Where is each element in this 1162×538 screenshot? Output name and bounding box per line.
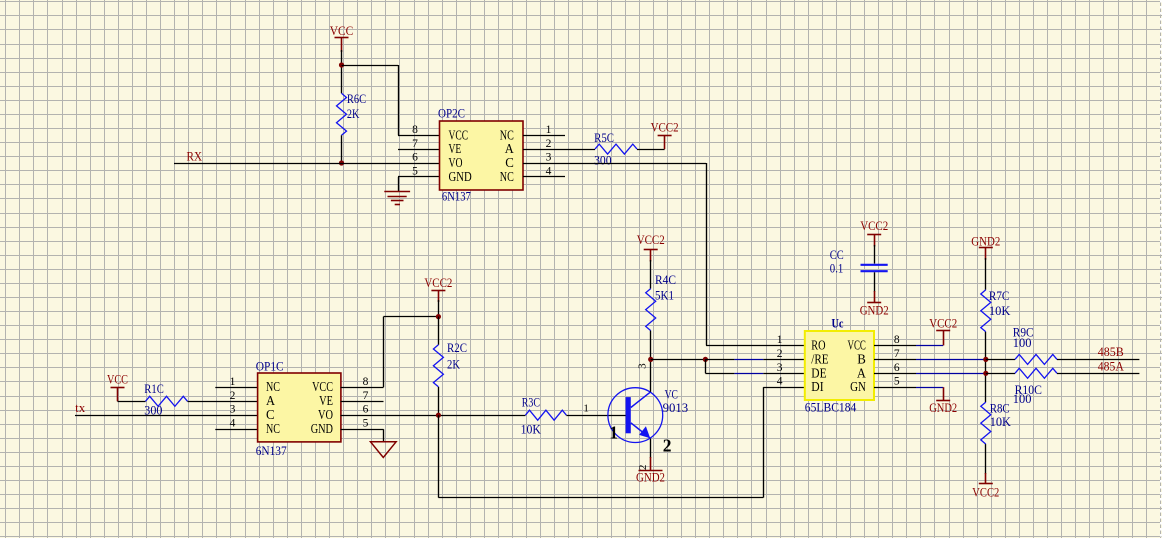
resistor R9C [1015,354,1057,364]
svg-text:485A: 485A [1098,360,1124,374]
U1 pin 2 line [763,359,805,361]
svg-text:5K1: 5K1 [655,289,674,303]
wire R7C bottom through junctions to R8C [985,332,987,402]
U1 pin names [811,337,866,394]
svg-text:1: 1 [546,124,552,136]
OP1C pin 7 stub [341,401,384,403]
svg-text:2: 2 [637,465,649,471]
wire tx to OP1C pin 3 [75,415,257,417]
svg-text:B: B [857,351,866,366]
svg-text:2: 2 [230,390,236,402]
svg-text:GN: GN [850,379,866,394]
svg-text:GND: GND [311,421,333,436]
wire R5C to VCC2 [637,149,665,151]
svg-text:NC: NC [500,169,514,184]
OP1C pin names [266,379,333,436]
wire OP2C pin 2 to R5C [523,149,595,151]
junction on RX line [339,160,344,165]
junction 485A [983,371,988,376]
svg-text:3: 3 [546,152,552,164]
resistor R1C [146,396,188,406]
svg-text:GND2: GND2 [971,234,1000,248]
wire (blue) pin 7 to bus [916,359,986,361]
svg-text:OP1C: OP1C [256,359,284,373]
svg-text:VC: VC [665,387,678,401]
wire collector junction to U1 /RE-DE junction [651,359,706,361]
svg-text:R4C: R4C [655,273,676,287]
wire junction to OP2C pin 8 (over and down) [342,65,399,135]
power VCC2 (above R4C) [644,250,658,262]
OP2C right pin numbers 1 2 3 4 [546,124,552,178]
svg-text:A: A [266,393,275,408]
resistor R4C [646,289,656,331]
wire R4C bottom to collector junction [650,331,652,360]
wire OP1C pin 6 (VO) to R3C [341,415,526,417]
junction /RE-DE tie [703,357,708,362]
wire junction to R2C top [438,317,440,345]
svg-text:VCC: VCC [449,127,469,142]
ground (earth) below OP2C pin 5 [384,192,410,205]
wire VCC2 to CC top plate [874,245,876,264]
svg-text:2K: 2K [347,107,360,121]
wire (blue) into pin 3 [734,373,763,375]
svg-text:9013: 9013 [663,401,689,415]
ground (triangle) below OP1C pin 5 [371,442,397,458]
svg-text:4: 4 [777,376,783,388]
svg-text:8: 8 [894,334,900,346]
svg-text:3: 3 [777,362,783,374]
wire to U1 pin 3 DE [705,373,734,375]
svg-text:1: 1 [583,403,589,415]
optocoupler OP1C 6N137 box [258,373,341,442]
U1 pin 4 DI line [763,387,805,389]
svg-text:2K: 2K [447,358,460,372]
svg-text:NC: NC [266,379,280,394]
svg-text:3: 3 [637,363,649,369]
svg-text:VCC: VCC [330,24,354,38]
OP1C pin 1 stub [215,387,257,389]
svg-text:5: 5 [894,376,900,388]
OP2C pin 5 line [398,177,440,192]
junction R4C/collector/RE wire [648,357,653,362]
svg-text:2: 2 [546,138,552,150]
svg-text:4: 4 [546,166,552,178]
U1 pin 7 line [874,359,916,361]
svg-text:GND2: GND2 [636,471,665,485]
svg-text:NC: NC [266,421,280,436]
OP1C pin 5 (GND) down to ground [341,429,384,442]
svg-text:RO: RO [811,337,825,352]
svg-text:1: 1 [609,422,618,442]
svg-text:GND: GND [449,169,472,184]
capacitor CC [861,265,888,271]
svg-text:/RE: /RE [811,351,828,366]
svg-text:A: A [505,141,514,156]
power VCC2 (below R8C) [979,473,993,484]
wire collector up to junction [650,359,652,391]
svg-text:R8C: R8C [990,402,1010,416]
svg-text:VCC2: VCC2 [860,219,888,233]
OP1C left pin numbers 1 2 3 4 [230,376,236,430]
resistor R10C [1015,368,1057,378]
junction at R6C top / wire to pin 8 [339,62,344,67]
wire R10C to 485A [1057,373,1139,375]
wire (blue) into pin 2 [734,359,763,361]
wire VCC stem to junction [341,50,343,93]
resistor R7C [981,290,991,332]
power VCC2 (at R5C) [658,136,672,150]
svg-text:R7C: R7C [989,289,1010,303]
svg-text:4: 4 [230,418,236,430]
svg-text:DI: DI [811,379,824,394]
OP1C pin 4 stub [215,429,257,431]
svg-text:DE: DE [811,365,826,380]
resistor R8C [981,402,991,444]
wire GND2 to R7C [985,258,987,290]
svg-text:VE: VE [319,393,333,408]
svg-text:GND2: GND2 [860,303,889,317]
resistor R2C [433,345,443,387]
power VCC2 (above R2C) [431,291,445,303]
wire VCC to R1C [118,401,146,403]
OP2C pin 1 stub [523,135,565,137]
wire (blue) pin 5 to GND2 [916,387,943,389]
svg-text:1: 1 [230,376,236,388]
U1 left pin numbers 1 2 3 4 [777,334,783,388]
svg-text:0.1: 0.1 [830,261,844,275]
power VCC2 (at U1 pin 8) [936,331,950,346]
svg-text:R3C: R3C [522,396,540,410]
svg-text:VCC: VCC [107,372,128,386]
svg-text:10K: 10K [990,415,1011,429]
svg-text:R1C: R1C [144,382,164,396]
svg-text:1: 1 [777,334,783,346]
wire OP2C pin 3 to U1 pin 1 (RO) [523,163,805,346]
svg-text:7: 7 [412,138,418,150]
svg-text:3: 3 [230,404,236,416]
U1 pin 6 line [874,373,916,375]
svg-text:CC: CC [830,248,844,262]
wire to U1 pin 2 /RE [705,359,734,361]
svg-text:R2C: R2C [447,341,467,355]
svg-text:7: 7 [363,390,369,402]
svg-text:VE: VE [449,141,462,156]
junction R2C / VO / R3C [436,413,441,418]
svg-text:VCC2: VCC2 [929,317,957,331]
svg-text:100: 100 [1013,336,1032,350]
wire OP1C pin 8 (VCC) up to VCC2 junction [341,317,439,388]
svg-text:OP2C: OP2C [438,107,465,121]
svg-text:5: 5 [412,166,418,178]
svg-text:RX: RX [187,149,203,163]
svg-text:VCC: VCC [848,337,866,352]
svg-text:8: 8 [363,376,369,388]
svg-text:VCC2: VCC2 [972,485,999,499]
power GND2 (below CC) [867,291,881,303]
wire junction down and along bottom to DI [438,387,763,497]
power VCC (top) [335,38,349,53]
wire R6C bottom to RX line [341,135,343,163]
OP1C right pin numbers 8 7 6 5 [363,376,369,430]
resistor R5C [595,144,637,154]
wire emitter down [650,439,652,458]
power VCC2 (above CC) [867,235,881,247]
svg-text:2: 2 [663,436,672,456]
wire RX to OP2C pin 6 [174,163,440,165]
wire junction down to DE row [705,359,707,373]
OP2C pin 8 line [398,135,440,137]
wire VCC2 to R4C [650,260,652,289]
power GND2 (at U1 pin 5) [936,387,950,400]
svg-text:VCC2: VCC2 [424,276,452,290]
wire CC bottom plate to GND2 [874,272,876,292]
svg-text:10K: 10K [989,304,1011,318]
svg-text:C: C [266,407,275,422]
wire R3C to transistor base [566,415,626,417]
wire R1C to OP1C pin 2 [188,401,258,403]
power VCC (left) [111,388,125,402]
U1 pin 3 line [763,373,805,375]
transistor VC 9013 (NPN) [608,388,663,443]
svg-text:NC: NC [500,127,514,142]
resistor R3C [525,410,566,420]
U1 pin 5 line [874,387,916,389]
svg-text:GND2: GND2 [929,401,957,415]
svg-text:Uc: Uc [832,316,844,330]
svg-text:6: 6 [363,404,369,416]
junction 485B [983,357,988,362]
wire (blue) pin 6 to bus [916,373,986,375]
resistor R6C [337,93,347,135]
wire junction to R10C [986,373,1015,375]
wire R8C bottom to VCC2 [985,444,987,474]
svg-text:300: 300 [594,153,612,167]
wire (blue) pin 8 to VCC2 [916,345,943,347]
transceiver U1 65LBC184 box [805,331,874,400]
svg-text:2: 2 [777,348,783,360]
U1 right pin numbers 8 7 6 5 [894,334,900,388]
svg-text:VCC2: VCC2 [651,121,679,135]
svg-text:10K: 10K [521,422,541,436]
svg-text:VCC2: VCC2 [637,233,665,247]
junction VCC2/OP1C-pin8/R2C [436,314,441,319]
svg-text:VO: VO [449,155,463,170]
svg-text:6N137: 6N137 [442,190,471,204]
svg-text:VCC: VCC [312,379,333,394]
svg-text:5: 5 [363,418,369,430]
wire VCC2 to junction [438,300,440,317]
OP2C pin 7 line [398,149,440,151]
wire R9C to 485B [1057,359,1139,361]
OP2C left pin numbers 8 7 6 5 [412,124,418,178]
svg-text:6: 6 [412,152,418,164]
svg-text:6: 6 [894,362,900,374]
svg-text:100: 100 [1013,392,1032,406]
svg-text:8: 8 [412,124,418,136]
U1 pin 8 line [874,345,916,347]
svg-text:R6C: R6C [347,92,366,106]
OP2C pin names [449,127,515,184]
svg-text:tx: tx [75,401,86,415]
svg-text:6N137: 6N137 [256,444,287,458]
svg-text:C: C [505,155,514,170]
optocoupler OP2C 6N137 box [440,121,524,190]
svg-text:485B: 485B [1098,345,1124,359]
svg-text:R5C: R5C [594,131,614,145]
wire R2C bottom to VO line junction [438,387,440,415]
svg-text:7: 7 [894,348,900,360]
wire junction to R9C [986,359,1015,361]
OP2C pin 4 stub [523,176,565,178]
svg-text:65LBC184: 65LBC184 [805,400,857,414]
svg-text:A: A [857,365,866,380]
power GND2 (below transistor) [639,457,663,471]
svg-text:VO: VO [318,407,333,422]
power GND2 (above R7C) [979,248,993,260]
